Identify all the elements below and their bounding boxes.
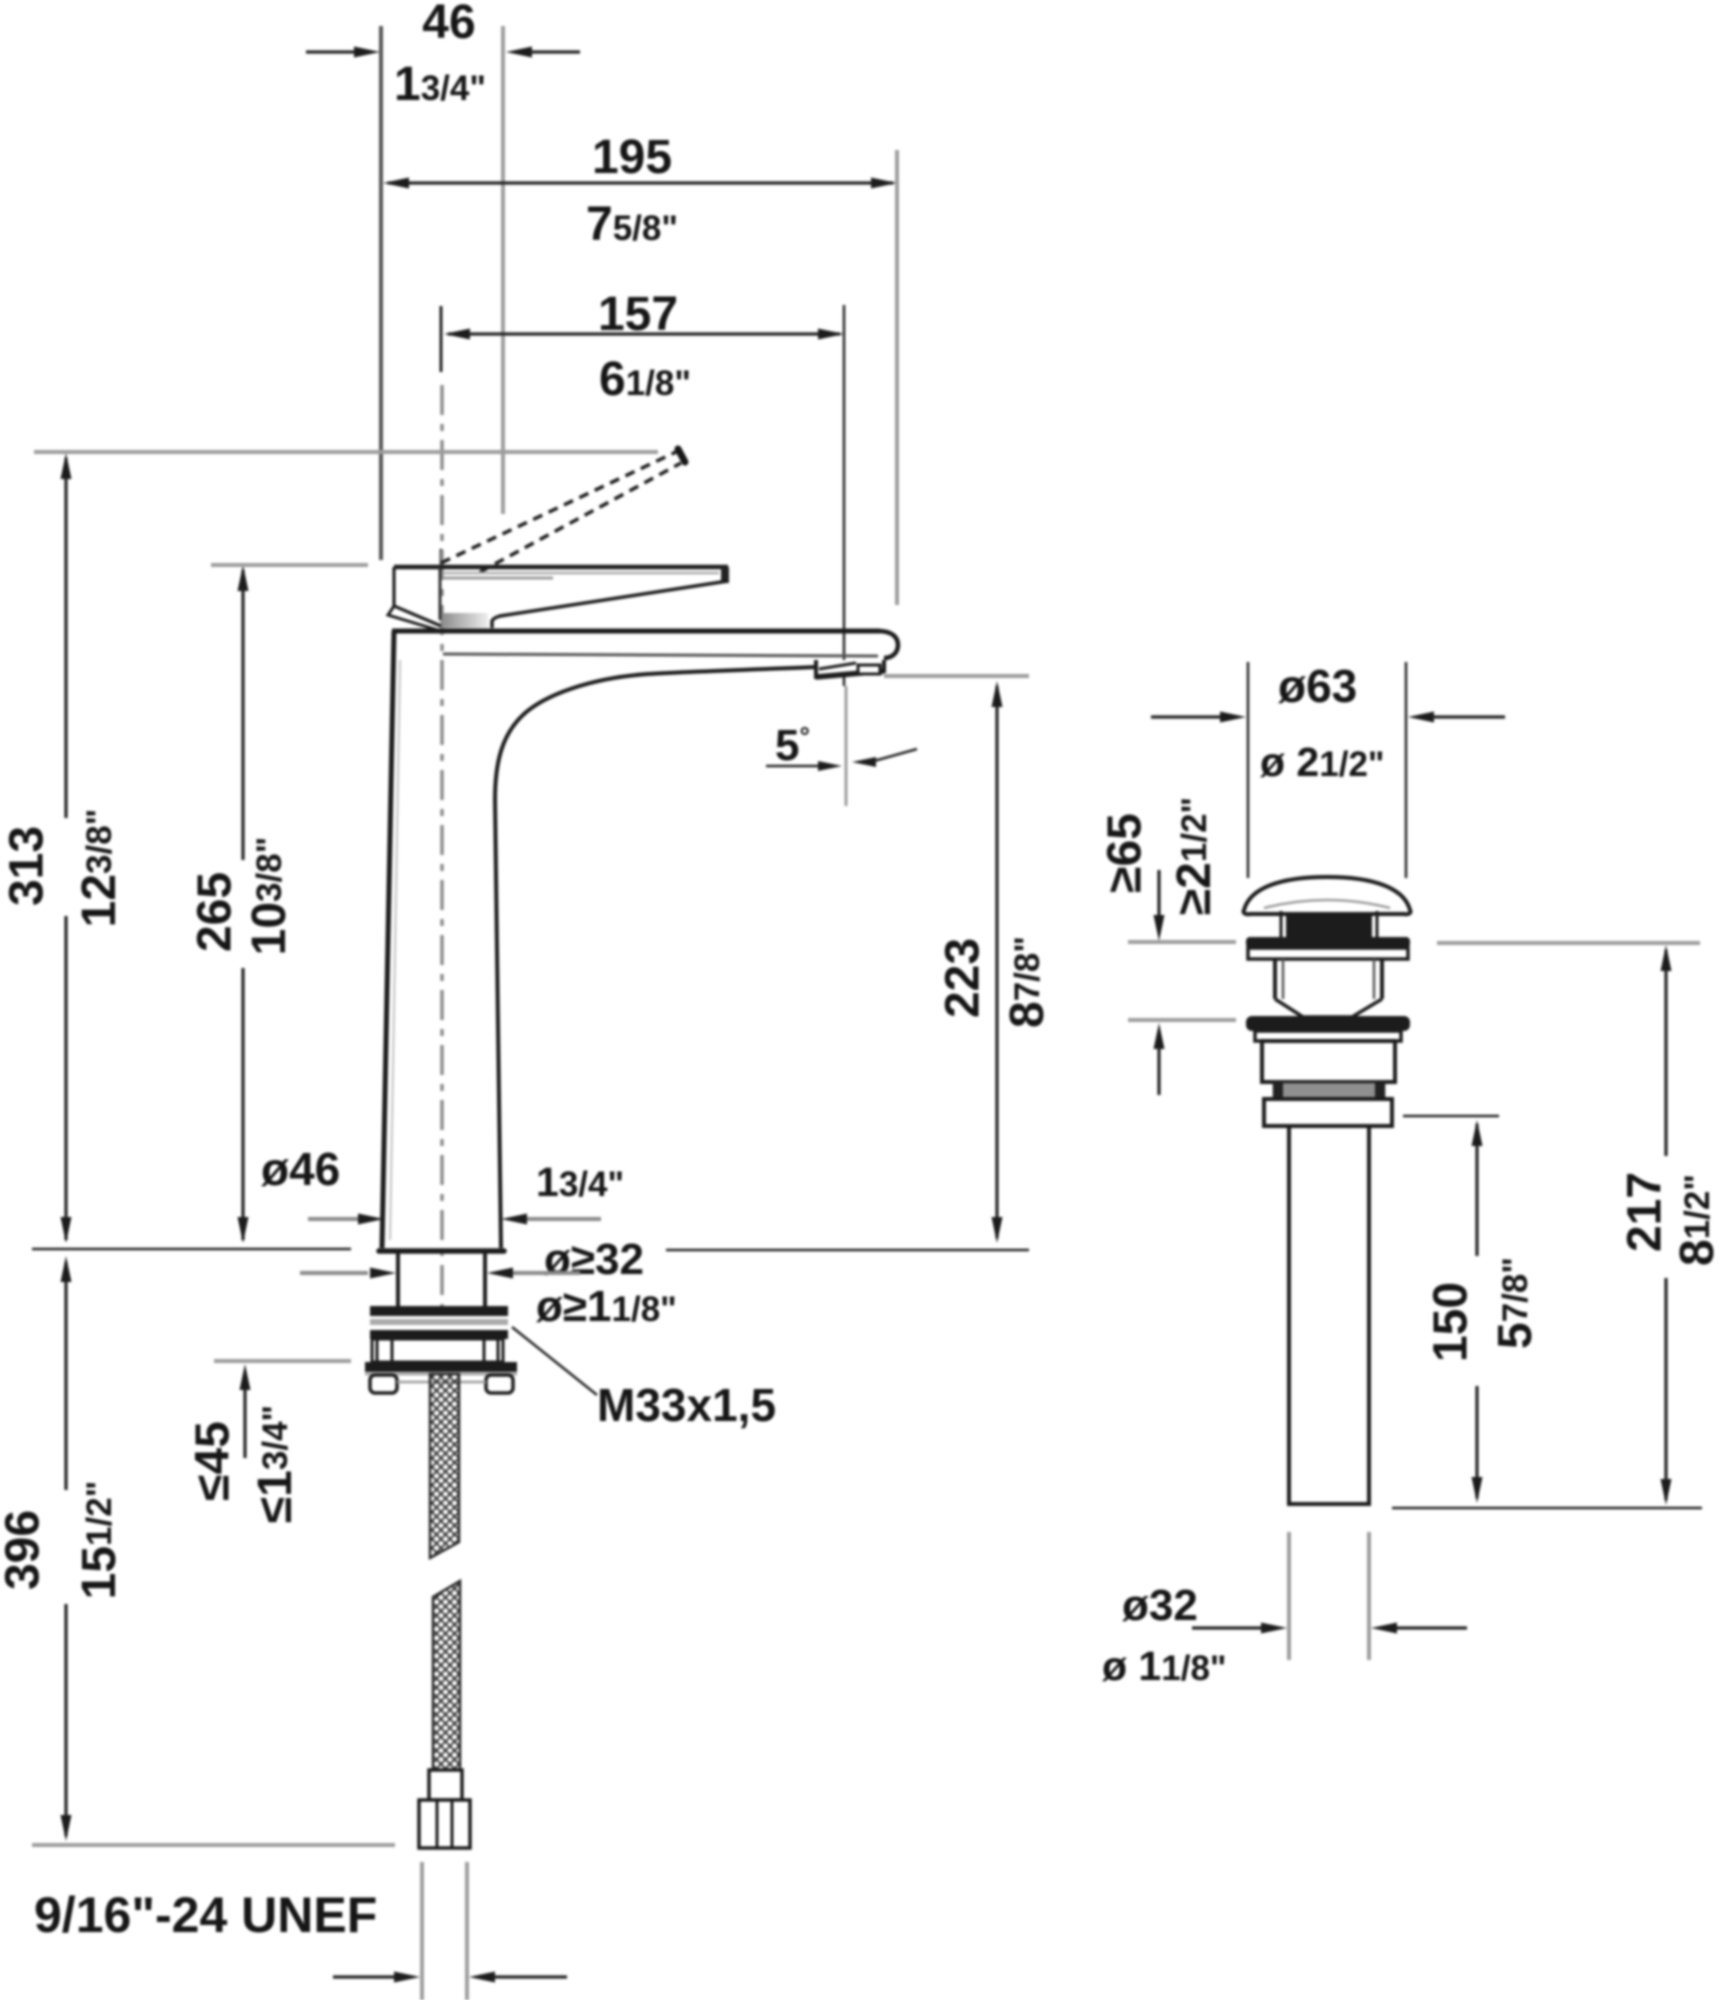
centerline of faucet body (dash-dot) [440,385,444,1320]
svg-text:150: 150 [1425,1282,1478,1362]
flexible hose (braided, upper part) [430,1374,459,1558]
extension line hose end (y1845) [32,1843,395,1847]
svg-text:≤13/4": ≤13/4" [249,1405,302,1523]
svg-text:≥65: ≥65 [1099,813,1152,893]
fitting thread dimension extension lines [333,1862,567,2000]
extension line left of handle (x381) [379,26,383,560]
svg-text:ø≥11/8": ø≥11/8" [536,1282,677,1331]
drain lower band [1264,1099,1392,1126]
drain locknut flange [1246,1016,1410,1041]
dimension 195 / 7 5/8" (overall depth) [383,131,897,251]
svg-text:313: 313 [1,826,54,906]
svg-text:13/4": 13/4" [536,1159,624,1205]
extension line right of handle (x503) [501,26,505,514]
drain seal (gray band) [1274,1082,1384,1099]
extension line centerline top (x441) [440,306,443,372]
drain top flange [1246,937,1410,959]
extension line top (y452, open lever height) [34,450,658,454]
extension line right (x897, spout end) [895,150,899,605]
svg-text:81/2": 81/2" [1671,1174,1724,1266]
svg-text:13/4": 13/4" [394,58,486,111]
svg-text:265: 265 [189,872,242,952]
drain pop-up cap [1243,877,1410,914]
5 degree outlet angle annotation [766,721,917,771]
drain neck [1275,959,1382,999]
svg-text:46: 46 [422,0,475,49]
mounting hardware stack [365,1306,517,1393]
dimension 46 / 1 3/4" (handle width, top) [306,0,580,111]
extension line lever top (y565) [211,563,368,567]
svg-text:195: 195 [592,131,672,184]
extension line spout axis (x844) [843,305,846,686]
drain cap stem (dark gap) [1281,911,1377,937]
dimension 313 / 12 3/8" (height to open lever) [1,453,126,1243]
svg-text:5°: 5° [775,721,810,770]
dimension 157 / 6 1/8" (spout reach) [444,288,844,406]
svg-text:87/8": 87/8" [1001,936,1054,1028]
dimension o32 / o 1 1/8" (tailpipe diameter) [1102,1532,1467,1689]
label M33x1,5 with leader [512,1327,776,1431]
svg-text:217: 217 [1619,1172,1672,1252]
base reference line (y1249, left) [32,1248,351,1251]
dimension 150 / 5 7/8" (tailpipe length) [1403,1116,1542,1503]
dimension <=45 / <=1 3/4" (deck thickness) [187,1364,302,1523]
dimension 217 / 8 1/2" (overall drain height) [1392,943,1724,1508]
threaded shank below deck [398,1253,485,1308]
svg-text:ø32: ø32 [1122,1581,1198,1630]
hose end fitting [419,1770,470,1848]
drain tailpipe [1287,1126,1371,1504]
drain centerline tick [1326,876,1329,906]
svg-text:57/8": 57/8" [1489,1257,1542,1349]
faucet lever handle [388,567,729,631]
svg-text:75/8": 75/8" [586,198,678,251]
svg-text:≥21/2": ≥21/2" [1168,797,1221,915]
drain cone [1275,999,1382,1017]
svg-text:61/8": 61/8" [599,353,691,406]
dimension o>=32 (counter hole diameter) [300,1235,644,1284]
faucet spout outlet (aerator) [816,660,884,677]
dimension o46 (column diameter, left) [261,1143,384,1225]
svg-text:9/16"-24 UNEF: 9/16"-24 UNEF [34,1887,377,1943]
svg-text:≤45: ≤45 [187,1421,240,1501]
drain locknut body [1262,1041,1395,1082]
svg-text:M33x1,5: M33x1,5 [597,1379,776,1431]
dimension 265 / 10 3/8" (height to lever) [189,565,296,1243]
flexible hose (braided, lower part) [433,1581,460,1770]
dimension o63 / o 2 1/2" (cap diameter) [1151,660,1505,878]
svg-text:123/8": 123/8" [73,809,126,928]
svg-text:ø≥32: ø≥32 [544,1235,644,1284]
svg-text:396: 396 [0,1510,50,1590]
svg-text:223: 223 [937,938,990,1018]
dimension 396 / 15 1/2" (height incl. hoses) [0,1256,126,1841]
svg-text:ø63: ø63 [1278,660,1357,712]
faucet lever raised (dashed) [441,449,685,572]
faucet body / spout [379,631,898,1251]
svg-text:151/2": 151/2" [73,1481,126,1600]
dimension 223 / 8 7/8" (spout height) [666,676,1054,1250]
svg-text:ø 11/8": ø 11/8" [1102,1643,1227,1689]
extension line washer bottom (y1361) [214,1359,351,1363]
svg-text:103/8": 103/8" [243,837,296,956]
dimension 1 3/4" (column diameter, right) [501,1159,624,1225]
svg-text:ø46: ø46 [261,1143,340,1195]
dimension >=65 / >=2 1/2" (mounting depth) [1099,797,1236,1095]
svg-text:ø 21/2": ø 21/2" [1260,739,1385,785]
